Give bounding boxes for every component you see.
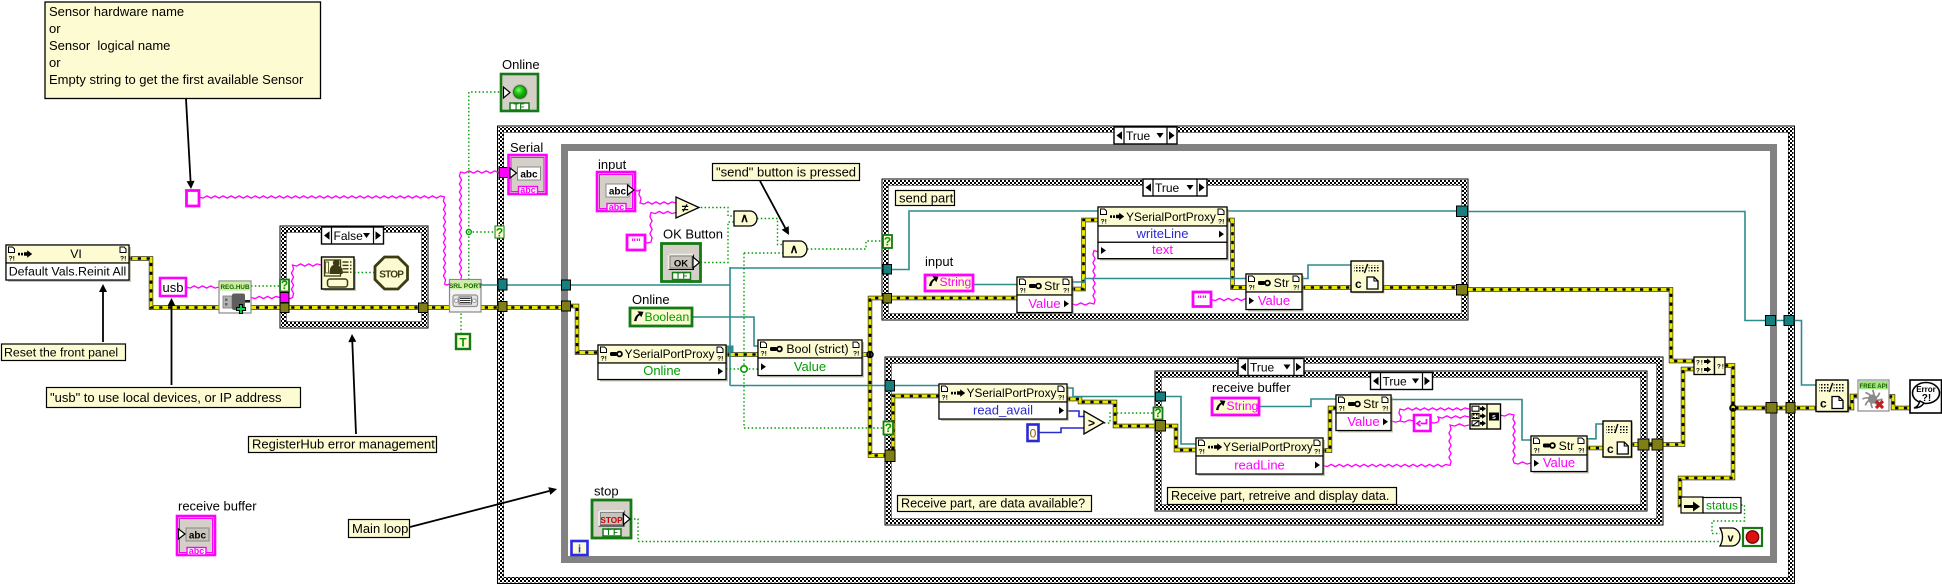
svg-text:c: c — [1607, 442, 1614, 456]
svg-text:Reset the front panel: Reset the front panel — [4, 346, 118, 360]
svg-text:?!: ?! — [120, 256, 126, 263]
svg-text:YSerialPortProxy: YSerialPortProxy — [1223, 440, 1313, 454]
svg-text:?: ? — [1154, 406, 1161, 420]
svg-text:?: ? — [885, 421, 892, 435]
svg-text:?!: ?! — [942, 395, 948, 402]
svg-text:Str: Str — [1363, 397, 1379, 411]
svg-text:abc: abc — [520, 170, 538, 181]
svg-text:?!: ?! — [1020, 288, 1026, 295]
svg-text:STOP: STOP — [379, 270, 404, 281]
svg-text:writeLine: writeLine — [1135, 226, 1188, 241]
svg-text:Value: Value — [794, 359, 826, 374]
svg-text:s: s — [1492, 414, 1496, 421]
svg-text:?!: ?! — [1534, 448, 1540, 455]
svg-text:or: or — [49, 55, 61, 70]
svg-text:?!: ?! — [1382, 406, 1388, 413]
svg-text:Sensor hardware name: Sensor hardware name — [49, 4, 184, 19]
svg-text:Main loop: Main loop — [352, 521, 408, 536]
svg-text:?!: ?! — [1101, 219, 1107, 226]
svg-text:Str: Str — [1274, 276, 1290, 290]
svg-text:YSerialPortProxy: YSerialPortProxy — [625, 347, 715, 361]
svg-text:?!: ?! — [1578, 448, 1584, 455]
svg-text:?!: ?! — [1218, 219, 1224, 226]
svg-text:"usb" to use local devices, or: "usb" to use local devices, or IP addres… — [50, 390, 282, 405]
svg-text:T: T — [459, 338, 466, 350]
svg-text:send part: send part — [899, 191, 954, 206]
svg-text:abc: abc — [609, 202, 625, 212]
svg-text:status: status — [1706, 499, 1738, 513]
svg-text:Receive part, are data availab: Receive part, are data available? — [901, 497, 1085, 511]
svg-text:?!: ?! — [1696, 368, 1704, 375]
svg-text:receive buffer: receive buffer — [178, 499, 257, 514]
svg-text:?!: ?! — [601, 356, 607, 363]
svg-text:"send" button is pressed: "send" button is pressed — [716, 165, 856, 180]
svg-text:Online: Online — [502, 57, 540, 72]
svg-text:?: ? — [884, 235, 891, 249]
svg-text:False: False — [334, 229, 364, 243]
svg-text:String: String — [1227, 399, 1259, 413]
svg-text:Default Vals.Reinit All: Default Vals.Reinit All — [9, 265, 127, 279]
svg-text:i: i — [578, 544, 581, 556]
svg-text:TF: TF — [514, 102, 526, 111]
svg-text:Value: Value — [1028, 296, 1060, 311]
svg-text:abc: abc — [609, 187, 627, 198]
svg-text:or: or — [49, 21, 61, 36]
svg-text:RegisterHub error management: RegisterHub error management — [252, 437, 435, 452]
svg-text:Value: Value — [1258, 293, 1290, 308]
svg-text:True: True — [1383, 374, 1408, 388]
svg-text:Online: Online — [643, 363, 681, 378]
svg-text:Receive part, retreive and dis: Receive part, retreive and display data. — [1171, 489, 1389, 503]
svg-text:"": "" — [1197, 295, 1207, 306]
svg-text:YSerialPortProxy: YSerialPortProxy — [1126, 210, 1216, 224]
svg-text:abc: abc — [189, 546, 205, 556]
svg-text:abc: abc — [189, 531, 207, 542]
svg-text:REG.HUB: REG.HUB — [220, 284, 249, 291]
svg-text:FREE API: FREE API — [1860, 383, 1888, 390]
svg-text:True: True — [1126, 129, 1151, 143]
svg-text:?!: ?! — [717, 356, 723, 363]
svg-text:read_avail: read_avail — [973, 403, 1033, 418]
svg-text:Str: Str — [1559, 439, 1575, 453]
svg-text:T F: T F — [676, 272, 688, 281]
svg-text:>: > — [1088, 416, 1095, 430]
svg-text:String: String — [940, 275, 972, 289]
svg-text:text: text — [1152, 242, 1173, 257]
svg-text:input: input — [925, 254, 954, 269]
svg-text:∧: ∧ — [740, 211, 749, 225]
svg-text:abc: abc — [520, 185, 536, 195]
svg-text:T F: T F — [606, 528, 618, 537]
svg-text:YSerialPortProxy: YSerialPortProxy — [967, 386, 1057, 400]
svg-text:≠: ≠ — [682, 201, 689, 215]
svg-text:?!: ?! — [1717, 364, 1725, 371]
svg-text:?!: ?! — [1058, 395, 1064, 402]
svg-text:"": "" — [631, 238, 641, 249]
svg-text:?!: ?! — [1199, 449, 1205, 456]
svg-text:Bool (strict): Bool (strict) — [786, 342, 848, 356]
svg-text:?!: ?! — [1339, 406, 1345, 413]
svg-text:Sensor logical name: Sensor logical name — [49, 38, 170, 53]
svg-text:?!: ?! — [853, 351, 859, 358]
svg-text:OK Button: OK Button — [663, 227, 723, 242]
svg-text:Str: Str — [1044, 279, 1060, 293]
svg-text:Empty string to get the first: Empty string to get the first available … — [49, 72, 304, 87]
svg-text:usb: usb — [163, 280, 184, 295]
svg-text:Online: Online — [632, 292, 670, 307]
svg-text:∧: ∧ — [790, 242, 799, 256]
svg-text:True: True — [1155, 181, 1180, 195]
svg-text:c: c — [1355, 277, 1362, 291]
svg-text:?!: ?! — [1249, 285, 1255, 292]
svg-text:Value: Value — [1543, 455, 1575, 470]
svg-text:?!: ?! — [1922, 393, 1931, 404]
svg-text:SRL PORT: SRL PORT — [449, 283, 482, 290]
svg-text:VI: VI — [70, 247, 82, 261]
svg-text:Serial: Serial — [510, 140, 543, 155]
svg-text:Value: Value — [1347, 414, 1379, 429]
svg-text:stop: stop — [594, 484, 619, 499]
svg-text:input: input — [598, 157, 627, 172]
svg-text:?!: ?! — [1314, 449, 1320, 456]
svg-text:?!: ?! — [1293, 285, 1299, 292]
svg-text:0: 0 — [1030, 427, 1037, 441]
svg-text:Boolean: Boolean — [645, 310, 690, 324]
svg-text:readLine: readLine — [1234, 458, 1285, 473]
svg-text:?!: ?! — [1696, 360, 1704, 367]
svg-text:?!: ?! — [9, 256, 15, 263]
svg-text:STOP: STOP — [600, 516, 623, 525]
svg-text:c: c — [1820, 397, 1827, 411]
svg-text:?: ? — [496, 226, 503, 240]
svg-text:OK: OK — [674, 258, 688, 269]
svg-text:True: True — [1250, 360, 1275, 374]
svg-text:v: v — [1727, 533, 1734, 545]
svg-text:?!: ?! — [761, 351, 767, 358]
svg-text:receive buffer: receive buffer — [1212, 380, 1291, 395]
svg-text:?!: ?! — [1063, 288, 1069, 295]
svg-text:?: ? — [281, 278, 288, 292]
